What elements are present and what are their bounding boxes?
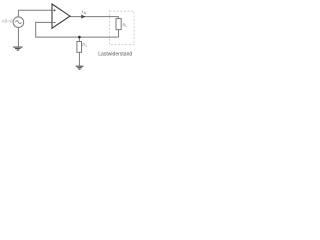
svg-text:A: A <box>84 11 87 15</box>
svg-text:1: 1 <box>85 44 87 48</box>
svg-text:Lastwiderstand: Lastwiderstand <box>98 51 132 57</box>
svg-text:L: L <box>125 24 127 28</box>
svg-text:AB=0: AB=0 <box>2 19 14 24</box>
